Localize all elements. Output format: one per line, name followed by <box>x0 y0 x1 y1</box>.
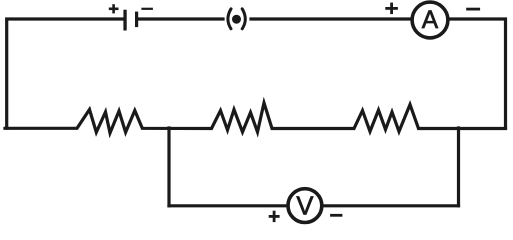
svg-text:A: A <box>422 7 439 34</box>
svg-text:V: V <box>296 193 313 221</box>
